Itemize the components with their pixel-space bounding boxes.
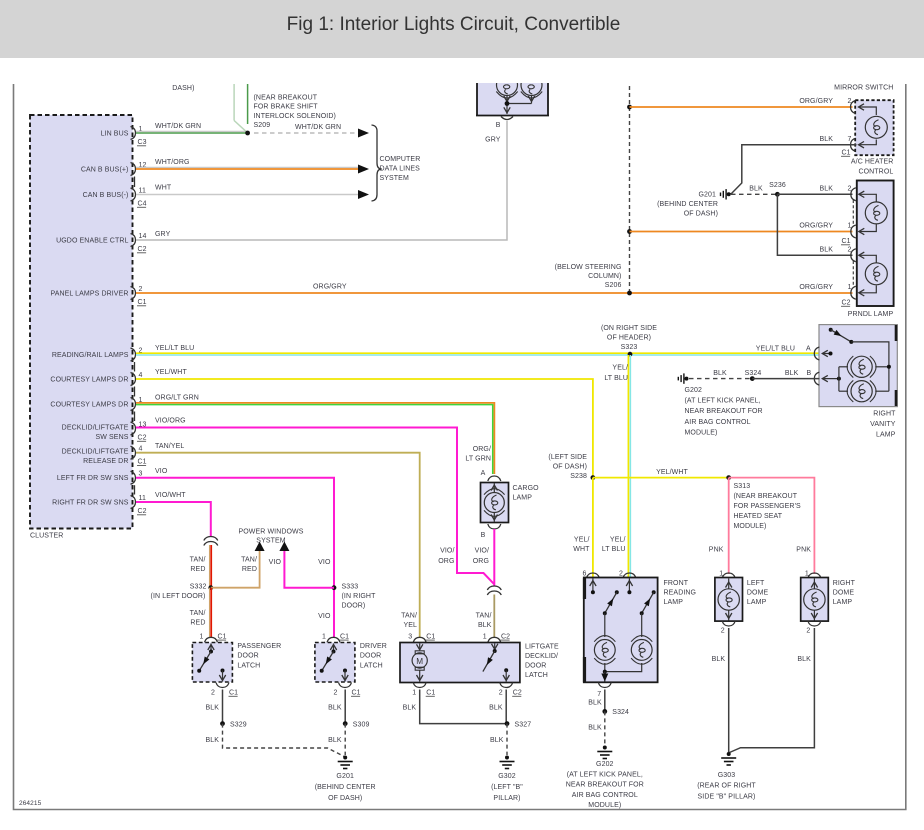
PRNDL bulb 2 wiring [859,255,876,262]
svg-text:C1: C1 [229,690,238,697]
cargo lamp block [481,483,509,523]
svg-text:BLK: BLK [713,370,727,377]
wire label TAN/ RED (upper) [190,557,206,574]
wire label YEL/ LT BLU (riser lower) [602,537,626,554]
splice S209 junction [245,131,250,136]
svg-text:BLK: BLK [588,725,602,732]
svg-text:(BEHIND CENTER: (BEHIND CENTER [657,201,718,208]
svg-text:DATA LINES: DATA LINES [380,166,421,173]
svg-text:BLK: BLK [797,656,811,663]
splice S313 note (NEAR BREAKOUT FOR PASSENGERS HEATED SEAT MODULE) [734,483,802,530]
arrow to power windows (VIO) [279,542,289,552]
svg-text:DASH): DASH) [172,85,194,92]
right dome lamp pin 1 arc [808,573,821,578]
svg-text:CARGO: CARGO [513,485,540,492]
svg-text:LAMP: LAMP [664,599,684,606]
svg-text:ORG: ORG [473,558,489,565]
svg-text:M: M [416,657,423,666]
cluster pin 4 (COURTESY LAMPS DR) [50,372,142,386]
liftgate switch output [504,668,508,672]
svg-text:LAMP: LAMP [833,599,853,606]
wire TAN/RED S332 to passenger latch pin 1 [210,588,212,638]
svg-text:2: 2 [334,690,338,697]
label G202 (at left kick panel...) [685,387,763,436]
svg-text:S323: S323 [621,344,638,351]
svg-text:BLK: BLK [785,370,799,377]
liftgate latch pin 3 arc (C1) [413,637,426,642]
svg-text:S206: S206 [605,282,622,289]
svg-text:ORG/LT GRN: ORG/LT GRN [155,394,199,401]
svg-text:3: 3 [139,471,143,478]
junction dot S324 (top) [750,376,755,381]
svg-text:TAN/: TAN/ [401,613,417,620]
wire YEL/LT BLU riser S323 to front reading pin 2 [628,355,630,577]
junction dot S323 [628,352,633,357]
svg-text:3: 3 [408,633,412,640]
svg-text:DOOR: DOOR [237,653,258,660]
cargo lamp arrow down [493,513,495,522]
svg-text:G202: G202 [596,761,614,768]
cargo lamp bulb [484,489,505,517]
wire BLK passenger latch to S329 [222,690,224,724]
svg-text:NEAR BREAKOUT FOR: NEAR BREAKOUT FOR [685,408,763,415]
arrow to computer data lines (CAN-) [358,190,369,199]
svg-text:COLUMN): COLUMN) [588,273,621,280]
wire BLK right dome to G303 [730,628,815,753]
label passenger door latch [237,643,281,669]
mirror switch internal wiring [859,107,876,115]
ground G302 [505,756,509,760]
svg-text:FRONT: FRONT [664,580,689,587]
junction dot at PRNDL C1 feed [627,229,632,234]
vanity bulb 2 leads [839,390,848,392]
junction S327 [505,721,510,726]
wire label VIO/ ORG (left riser) [438,548,454,565]
svg-text:(LEFT "B": (LEFT "B" [491,784,523,791]
svg-text:11: 11 [139,495,146,502]
cluster pin 2 (READING/RAIL LAMPS) [52,347,143,361]
inline connector (cargo/liftgate C2) [487,586,501,590]
svg-text:(IN LEFT DOOR): (IN LEFT DOOR) [151,593,206,600]
label right dome lamp [833,580,856,606]
junction dot S332 [208,585,213,590]
svg-text:ORG/: ORG/ [473,446,491,453]
dashed wire BLK G201 to S236 [731,193,777,195]
vanity bulb 1 leads [839,366,848,368]
cluster pin 3 (LEFT FR DR SW SNS) [57,471,143,485]
svg-text:A: A [481,470,486,477]
svg-text:WHT/ORG: WHT/ORG [155,159,190,166]
svg-text:AIR BAG CONTROL: AIR BAG CONTROL [572,792,638,799]
svg-text:C2: C2 [842,300,851,307]
left dome lamp bulb [718,589,739,610]
svg-text:C1: C1 [842,150,851,157]
driver door latch block [315,643,355,683]
wire VIO branch to power windows [284,551,334,588]
svg-text:PASSENGER: PASSENGER [237,643,281,650]
svg-text:VIO/WHT: VIO/WHT [155,492,186,499]
mirror switch pin 7 arc [851,138,856,151]
svg-text:BLK: BLK [205,705,219,712]
svg-text:BLK: BLK [478,622,492,629]
arrow to computer data lines (LIN) [358,129,369,138]
svg-text:LAMP: LAMP [747,599,767,606]
svg-text:(AT LEFT KICK PANEL,: (AT LEFT KICK PANEL, [685,398,761,405]
svg-text:1: 1 [412,690,416,697]
PRNDL lamp block [857,181,894,307]
svg-text:S236: S236 [769,182,786,189]
vanity switch [829,328,833,332]
svg-text:G303: G303 [718,772,736,779]
svg-text:NEAR BREAKOUT FOR: NEAR BREAKOUT FOR [566,782,644,789]
svg-text:YEL: YEL [403,622,417,629]
junction S324 (bottom) [602,709,607,714]
svg-text:HEATED SEAT: HEATED SEAT [734,513,783,520]
splice S238 note (LEFT SIDE OF DASH) [548,454,587,480]
front reading pin 7 arc [598,683,611,688]
right vanity lamp block [819,325,897,407]
wire ORG/GRY (PANEL LAMPS DRIVER to S206 riser) [136,292,853,294]
svg-text:G202: G202 [685,387,703,394]
wire VIO (LEFT FR DR SW SNS) [136,478,334,638]
svg-text:LEFT: LEFT [747,580,765,587]
svg-text:INTERLOCK SOLENOID): INTERLOCK SOLENOID) [254,113,336,120]
svg-text:LAMP: LAMP [876,432,896,439]
svg-text:RELEASE DR: RELEASE DR [83,458,128,465]
svg-text:B: B [807,370,812,377]
svg-text:MODULE): MODULE) [734,523,767,530]
dashed BLK S329 to G201 [223,724,346,757]
label RIGHT VANITY LAMP [870,411,896,439]
label G303 [697,772,756,800]
svg-text:POWER WINDOWS: POWER WINDOWS [238,529,303,536]
wire BLK driver latch to S309 [344,690,346,724]
cluster pin 2 (PANEL LAMPS DRIVER) [50,286,146,306]
svg-text:LATCH: LATCH [237,662,260,669]
svg-text:YEL/LT BLU: YEL/LT BLU [155,345,194,352]
svg-text:YEL/: YEL/ [612,365,628,372]
wire ORG/LT GRN (COURTESY LAMPS DR to cargo lamp A) [136,403,494,474]
svg-text:VIO: VIO [155,468,168,475]
label LIFTGATE DECKLID/ DOOR LATCH [525,644,559,680]
svg-text:FOR BRAKE SHIFT: FOR BRAKE SHIFT [254,104,319,111]
svg-text:RIGHT: RIGHT [873,411,896,418]
passenger door latch output contact [221,669,225,673]
right dome lamp exit arrow [813,610,815,620]
svg-text:C2: C2 [138,246,147,253]
svg-text:A: A [806,346,811,353]
label FRONT READING LAMP [664,580,697,606]
junction dot S236 [775,192,780,197]
dashed BLK S327 to G302 [506,724,508,755]
vanity pin B arc [814,372,819,385]
svg-text:C1: C1 [426,690,435,697]
svg-text:(BEHIND CENTER: (BEHIND CENTER [315,784,376,791]
label G202 (bottom) [566,761,644,809]
svg-text:S329: S329 [230,721,247,728]
svg-text:VIO: VIO [269,559,282,566]
svg-text:G201: G201 [698,192,716,199]
front reading pin 6 entry arrow [592,579,594,593]
svg-text:RIGHT FR DR SW SNS: RIGHT FR DR SW SNS [52,500,129,507]
svg-text:CAN B BUS(-): CAN B BUS(-) [83,192,129,199]
svg-text:BLK: BLK [749,186,763,193]
svg-text:1: 1 [848,284,852,291]
driver door latch internal entry arrow [333,644,335,651]
svg-text:BLK: BLK [819,136,833,143]
computer data lines brace [372,125,382,201]
top lamp module block (clipped) [476,75,549,116]
mirror switch pin 7 arrow [859,142,865,148]
mirror switch pin 2 arrow [859,104,865,110]
svg-text:MODULE): MODULE) [685,429,718,436]
svg-text:1: 1 [322,633,326,640]
svg-text:VANITY: VANITY [870,421,896,428]
svg-text:C2: C2 [138,435,147,442]
junction dot S313 [726,475,731,480]
arrow to power windows (TAN/RED) [255,542,265,552]
svg-text:DOOR): DOOR) [342,603,366,610]
vanity right rail [851,342,889,391]
svg-text:OF DASH): OF DASH) [553,464,587,471]
svg-text:LATCH: LATCH [360,662,383,669]
mirror switch block [855,100,893,155]
svg-text:LT GRN: LT GRN [465,456,491,463]
PRNDL C2 dashed connector bar [852,261,854,287]
cluster pin 14 (UGDO ENABLE CTRL) [56,233,147,253]
ground G201 (behind center of dash) [721,189,727,199]
passenger door latch pin 1 arc [205,637,218,642]
wire TAN/BLK to liftgate pin 1 C2 [493,595,495,638]
svg-text:DECKLID/LIFTGATE: DECKLID/LIFTGATE [62,424,129,431]
svg-text:WHT: WHT [573,546,590,553]
svg-text:C2: C2 [513,690,522,697]
mirror switch pin 2 arc [851,101,856,114]
svg-text:S324: S324 [745,370,762,377]
svg-text:OF DASH): OF DASH) [684,210,718,217]
svg-text:ORG/GRY: ORG/GRY [313,284,347,291]
wire VIO/ORG cargo B down [493,529,495,586]
svg-text:14: 14 [139,233,147,240]
cluster pin 11 (RIGHT FR DR SW SNS) [52,495,147,515]
svg-text:SW SENS: SW SENS [96,434,129,441]
svg-text:TAN/: TAN/ [241,557,257,564]
wire BLK liftgate pin1 to S327 [420,690,507,724]
junction dot S206 [627,291,632,296]
svg-text:PNK: PNK [796,547,811,554]
svg-text:BLK: BLK [819,247,833,254]
driver door latch output contact [343,669,347,673]
svg-text:7: 7 [848,136,852,143]
svg-text:SYSTEM: SYSTEM [380,175,409,182]
svg-text:PILLAR): PILLAR) [493,795,520,802]
wire BLK S236 riser to PRNDL pin 2b [777,194,852,255]
wire VIO/WHT (RIGHT FR DR SW SNS) [136,502,211,537]
label COMPUTER DATA LINES SYSTEM [380,156,421,182]
front reading bulb 1 lead [604,613,606,637]
svg-text:2: 2 [499,690,503,697]
front reading lamp block [584,578,658,683]
right dome lamp pin 2 arc [808,621,821,626]
svg-text:C2: C2 [501,633,510,640]
svg-text:BLK: BLK [819,186,833,193]
cluster connector group bars [134,177,136,495]
front reading bulb 1 [594,636,615,665]
svg-text:B: B [481,532,486,539]
svg-text:LIFTGATE: LIFTGATE [525,644,559,651]
svg-text:DOOR: DOOR [360,653,381,660]
cluster pin 13 (DECKLID/LIFTGATE) [62,421,147,441]
liftgate motor M [412,651,427,670]
svg-text:WHT/DK GRN: WHT/DK GRN [295,124,341,131]
dashed ORG/GRY distribution riser [629,84,631,293]
svg-text:264215: 264215 [19,800,42,807]
passenger door latch switch blade [199,652,211,671]
wire label VIO/ ORG (right) [473,548,489,565]
vanity pin A arc [814,347,819,360]
left dome lamp block [715,578,743,622]
svg-text:1: 1 [719,571,723,578]
svg-text:S238: S238 [570,473,587,480]
svg-text:TAN/YEL: TAN/YEL [155,443,184,450]
svg-text:COURTESY LAMPS DR: COURTESY LAMPS DR [50,402,128,409]
passenger door latch pin 2 arc [216,683,229,688]
driver door latch pin 1 arc [327,637,340,642]
svg-text:YEL/: YEL/ [610,537,626,544]
PRNDL pin 1 arc (C1) [851,225,856,238]
svg-text:BLK: BLK [489,705,503,712]
front reading output junction [604,663,606,672]
cluster pin 1 (COURTESY LAMPS DR) [50,397,142,411]
wire YEL/WHT (COURTESY LAMPS DR to S238) [136,379,593,478]
svg-text:S313: S313 [734,483,751,490]
cluster block [30,115,133,529]
dashed BLK G202 to S324 [689,378,752,380]
wire TAN/RED branch to power windows [211,551,260,588]
junction dot in top lamp module [505,101,510,106]
svg-text:ORG/GRY: ORG/GRY [799,284,833,291]
wire BLK front reading to S324 [604,690,606,712]
svg-text:S332: S332 [190,584,207,591]
svg-text:LAMP: LAMP [513,495,533,502]
wire PNK S313 to left dome pin 1 [728,478,730,574]
svg-text:LT BLU: LT BLU [604,375,628,382]
svg-text:BLK: BLK [328,705,342,712]
wire BLK liftgate pin2 to S327 [505,690,507,724]
svg-text:SYSTEM: SYSTEM [256,537,285,544]
svg-text:LT BLU: LT BLU [602,546,626,553]
front reading lamp pin 6 arc [586,573,599,578]
wire WHT (CAN B BUS-) [136,194,358,196]
svg-text:(LEFT SIDE: (LEFT SIDE [548,454,587,461]
wire BLK left dome to G303 [728,628,730,752]
svg-text:C1: C1 [842,238,851,245]
junction dot S333 [332,585,337,590]
svg-text:RIGHT: RIGHT [833,580,856,587]
ground G202 (bottom) [603,746,607,750]
wire BLK vanity B: ground G202 symbol [678,373,684,383]
dashed BLK S324 to G202 [604,711,606,745]
svg-text:C4: C4 [138,201,147,208]
svg-text:CAN B BUS(+): CAN B BUS(+) [81,167,129,174]
svg-text:VIO/: VIO/ [440,548,454,555]
wire VIO/ORG (DECKLID SW SENS) [136,428,494,585]
svg-text:CLUSTER: CLUSTER [30,533,63,540]
svg-text:ORG/GRY: ORG/GRY [799,223,833,230]
wire YEL/WHT riser to front reading pin 6 [592,478,594,577]
svg-text:MIRROR SWITCH: MIRROR SWITCH [834,85,893,92]
svg-text:C3: C3 [138,139,147,146]
svg-text:S209: S209 [254,122,271,129]
PRNDL bulb 1 [865,202,887,224]
svg-text:6: 6 [583,571,587,578]
arrow to computer data lines (CAN+) [358,165,369,174]
label G302 [491,773,523,802]
PRNDL pin 2 arc (C2) [851,249,856,262]
splice S323 note (ON RIGHT SIDE OF HEADER) [601,325,657,351]
svg-text:SIDE "B" PILLAR): SIDE "B" PILLAR) [698,793,756,800]
label G201 (bottom) [315,773,376,802]
svg-text:LATCH: LATCH [525,672,548,679]
svg-text:C1: C1 [138,299,147,306]
label POWER WINDOWS SYSTEM [238,529,303,545]
svg-text:YEL/WHT: YEL/WHT [155,369,187,376]
left dome lamp pin 2 arc [722,621,735,626]
svg-text:DECKLID/: DECKLID/ [525,653,558,660]
wire ORG/GRY to mirror switch [630,106,853,108]
PRNDL pin 1 arc (C2) [851,286,856,299]
inline connector (passenger door) [204,537,218,541]
svg-text:A/C HEATER: A/C HEATER [851,159,894,166]
svg-text:S327: S327 [515,721,532,728]
junction dot at mirror switch feed [627,105,632,110]
svg-text:DOME: DOME [833,590,855,597]
wire YEL/LT BLU (READING/RAIL LAMPS to vanity A) [136,353,820,355]
svg-text:(BELOW STEERING: (BELOW STEERING [555,264,622,271]
front reading bulb 2 lead [641,613,643,637]
svg-text:C1: C1 [340,633,349,640]
cluster pin 4 (DECKLID/LIFTGATE) [62,446,147,466]
svg-text:LIN BUS: LIN BUS [101,131,129,138]
svg-text:RED: RED [190,620,205,627]
wire TAN/RED inline to S332 [210,545,212,588]
svg-text:VIO: VIO [318,559,331,566]
svg-text:4: 4 [139,446,143,453]
cluster pin 12 (CAN B BUS(+)) [81,162,147,176]
liftgate switch entry arrow [494,644,496,651]
svg-text:COMPUTER: COMPUTER [380,156,421,163]
svg-text:BLK: BLK [205,737,219,744]
svg-text:CONTROL: CONTROL [858,168,893,175]
svg-text:WHT: WHT [155,185,172,192]
svg-text:VIO/: VIO/ [475,548,489,555]
note near breakout for brake shift interlock solenoid S209 [254,95,336,130]
wire ORG/GRY to PRNDL C1 [630,231,853,233]
vanity bulb 1 [847,356,876,378]
wire WHT/DK GRN (LIN BUS to S209) [136,131,248,133]
junction S329 [220,721,225,726]
front reading switch blade 2 [652,590,656,594]
svg-text:BLK: BLK [712,656,726,663]
svg-text:BLK: BLK [403,705,417,712]
svg-text:C1: C1 [352,690,361,697]
svg-text:ORG: ORG [438,558,454,565]
wire label YEL/ WHT (riser) [573,537,590,554]
liftgate motor entry arrow [419,644,421,651]
svg-text:UGDO ENABLE CTRL: UGDO ENABLE CTRL [56,238,128,245]
svg-text:BLK: BLK [328,737,342,744]
wire GRY (UGDO ENABLE CTRL to lamp B) [136,121,507,240]
